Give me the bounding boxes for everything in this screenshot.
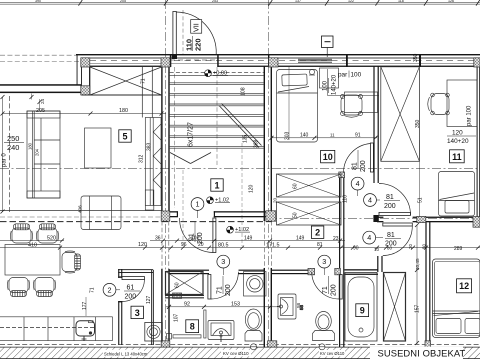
room box 3 — [131, 306, 143, 318]
svg-text:12: 12 — [459, 281, 469, 291]
room box 8 — [186, 320, 199, 333]
shaft room9 — [384, 273, 406, 342]
nightstand room10 — [320, 68, 339, 88]
door 71 room8 arc — [211, 272, 239, 299]
room12 west wall — [425, 222, 426, 345]
svg-text:1: 1 — [214, 180, 219, 190]
passage dashed west wall x168.8 — [168, 221, 170, 269]
door 81 room10: leaf — [344, 143, 374, 172]
block tub wall left — [335, 268, 341, 274]
circle 4 b — [364, 194, 377, 207]
west upper wall outer line — [0, 84, 82, 86]
desk room11 — [447, 80, 477, 127]
svg-text:60: 60 — [293, 183, 299, 189]
door VII label box — [191, 20, 202, 34]
top wall outer face — [76, 54, 480, 55]
svg-text:157: 157 — [415, 304, 421, 313]
svg-text:350: 350 — [415, 119, 421, 128]
block stair west bottom — [161, 341, 170, 350]
top wall glazing lines — [90, 57, 480, 60]
svg-text:127: 127 — [146, 295, 152, 304]
svg-text:140+20: 140+20 — [447, 138, 469, 145]
svg-text:71: 71 — [140, 78, 146, 84]
svg-text:204: 204 — [35, 148, 40, 156]
washing machine room8 top — [244, 272, 267, 297]
window jamb x268 — [268, 54, 269, 67]
svg-text:171.5: 171.5 — [266, 243, 280, 249]
wardrobe strip east wall living — [145, 118, 161, 206]
svg-text:81: 81 — [352, 162, 359, 170]
svg-text:61: 61 — [127, 285, 135, 292]
long wall x339.3-343.9 — [339, 177, 340, 347]
svg-text:110: 110 — [343, 195, 349, 203]
room10 south wall piece — [339, 172, 345, 177]
svg-text:289: 289 — [454, 246, 463, 252]
svg-text:205: 205 — [36, 108, 45, 114]
block room11 wall — [417, 216, 426, 222]
circle 1 — [191, 198, 204, 211]
overhang strip verticals — [141, 67, 143, 118]
coffee table — [85, 128, 112, 168]
text SUSEDNI OBJEKAT — [370, 347, 465, 359]
stair core east wall face x271 — [271, 58, 272, 221]
room box 2 — [311, 226, 323, 238]
svg-text:58: 58 — [296, 302, 301, 308]
hall-bath vertical piece — [377, 256, 378, 272]
svg-text:140: 140 — [300, 132, 309, 138]
text Schiedel note — [103, 350, 148, 357]
svg-text:4: 4 — [368, 196, 372, 205]
svg-text:153: 153 — [231, 301, 240, 307]
closet X room2 upper — [277, 174, 342, 197]
svg-text:410: 410 — [28, 242, 37, 248]
top dimension tiny numbers — [35, 0, 454, 3]
dim line y240.5 hall — [150, 239, 345, 243]
hall south wall y211.4 left segment — [162, 211, 178, 212]
door VII entrance leaf — [170, 10, 218, 60]
level marker +0.00 — [205, 70, 228, 77]
top wall inner face left of door — [81, 66, 170, 67]
level marker +1.02 hall — [207, 197, 230, 204]
svg-text:KV cev Ø110: KV cev Ø110 — [223, 351, 249, 356]
dim line y113 — [1, 112, 167, 116]
stair landing edge — [170, 75, 264, 77]
shaft schiedel room8 — [166, 272, 204, 295]
window glazing dense room10 — [298, 58, 332, 61]
terrace slab edge solid y210.6 — [0, 210, 162, 212]
room8 top wall left — [169, 270, 209, 271]
window jamb x346 — [346, 55, 348, 67]
dim line y247 left — [0, 246, 166, 250]
stair treads — [170, 82, 264, 84]
stair break line — [219, 106, 259, 148]
svg-text:24: 24 — [40, 98, 45, 104]
svg-text:137: 137 — [295, 0, 301, 3]
block hall wall west — [161, 211, 170, 221]
door jamb x177 — [177, 211, 178, 217]
door 61 arc — [122, 280, 145, 302]
roof overhang dashed y55 — [0, 54, 77, 56]
left vertical dim line — [1, 95, 5, 214]
svg-text:20: 20 — [273, 197, 278, 203]
section marker box — [322, 36, 334, 57]
dim extension line x86 — [85, 297, 87, 316]
svg-text:180: 180 — [119, 108, 128, 114]
toilet wc room — [316, 312, 332, 331]
window jamb x419 — [419, 55, 421, 67]
room box 9 — [356, 304, 369, 317]
svg-text:312: 312 — [139, 154, 145, 163]
chair bottom 2 — [34, 278, 56, 297]
svg-text:96: 96 — [181, 242, 187, 248]
svg-text:81: 81 — [386, 194, 394, 201]
passage dashed east wall x271.3 — [270, 221, 272, 268]
room3 top wall — [118, 268, 153, 271]
chair bottom 1 — [8, 278, 30, 297]
block shaft8 corner — [173, 293, 182, 298]
top wall inner face right of door — [218, 66, 480, 67]
tub top wall — [344, 269, 378, 270]
door 71 toilet: leaf — [312, 272, 343, 299]
svg-text:177: 177 — [82, 301, 88, 310]
passage dashed east wall x264.3 — [263, 221, 265, 268]
svg-text:20: 20 — [408, 244, 413, 249]
balcony outline dashed y217 — [0, 216, 162, 218]
svg-text:101: 101 — [191, 235, 200, 241]
door VII arc — [176, 12, 216, 54]
door 81 room12 hall: leaf — [383, 223, 413, 256]
svg-text:120: 120 — [138, 242, 147, 248]
room3 east wall thin — [150, 270, 153, 345]
stair core west wall face x168.8 upper — [168, 66, 169, 221]
svg-text:220: 220 — [194, 38, 203, 51]
svg-text:205: 205 — [120, 0, 126, 3]
circle leader lines — [116, 190, 383, 290]
bottom floor edge dashed y344 — [0, 343, 480, 345]
svg-text:2: 2 — [108, 285, 112, 294]
svg-text:200: 200 — [384, 203, 396, 210]
roof overhang dashed y62 — [0, 61, 90, 63]
svg-text:368: 368 — [254, 139, 260, 148]
chair top 2 — [37, 224, 59, 243]
pier hatch west wall lower — [81, 86, 90, 95]
desk room10 — [345, 92, 378, 113]
axis line horizontal right y218.4 — [268, 217, 480, 219]
kitchen sink — [76, 321, 95, 336]
svg-text:10: 10 — [374, 247, 379, 252]
stair direction chevron — [170, 153, 191, 164]
svg-text:36: 36 — [155, 235, 161, 241]
svg-text:VII: VII — [192, 23, 201, 32]
circle 2 — [103, 283, 116, 296]
stair projection dashed x174 — [174, 67, 176, 208]
washbasin toilet room — [278, 294, 296, 319]
svg-text:120: 120 — [249, 184, 255, 193]
chair room11 — [431, 94, 449, 115]
svg-text:par 100: par 100 — [467, 105, 473, 126]
dim line room10 y137.5 — [270, 136, 378, 140]
svg-text:71: 71 — [90, 287, 96, 293]
room10 east wall jamb bottom — [373, 215, 378, 222]
stair core west wall face x161.6 upper — [161, 58, 162, 221]
hall extension dashed x242 — [241, 143, 243, 246]
svg-text:par: par — [338, 72, 348, 79]
svg-text:240: 240 — [7, 143, 19, 152]
svg-text:23: 23 — [333, 236, 339, 242]
svg-text:3: 3 — [322, 257, 326, 266]
axis line vertical x165.6 — [164, 0, 166, 350]
svg-text:81: 81 — [317, 242, 323, 248]
room11 south wall — [377, 217, 383, 218]
circle 3 right — [318, 255, 331, 268]
floor drain symbol right — [319, 344, 325, 350]
svg-text:11: 11 — [452, 152, 462, 162]
vertical towel radiator room8 — [204, 310, 206, 338]
door 71 room8: leaf — [208, 272, 239, 299]
toilet room top wall — [272, 270, 309, 271]
chair top 1 — [11, 224, 33, 243]
svg-text:126: 126 — [448, 0, 454, 3]
svg-text:180: 180 — [28, 142, 33, 150]
room box 10 — [321, 150, 335, 162]
svg-text:100: 100 — [351, 72, 362, 79]
svg-text:50: 50 — [293, 212, 299, 218]
west upper wall inner line — [0, 92, 82, 94]
svg-text:122: 122 — [348, 0, 354, 3]
hatched wall blocks — [81, 58, 480, 350]
svg-text:303: 303 — [285, 131, 291, 140]
svg-text:3: 3 — [221, 257, 225, 266]
room box 5 — [119, 130, 131, 142]
svg-text:SUSEDNI OBJEKAT: SUSEDNI OBJEKAT — [378, 347, 466, 358]
block room10 door — [339, 172, 345, 178]
room8 top wall right — [239, 270, 265, 271]
tall cupboard X between 10 and 11 — [381, 67, 420, 162]
svg-text:140+20: 140+20 — [332, 74, 338, 95]
room3 west wall upper — [118, 269, 119, 278]
svg-text:20,45: 20,45 — [415, 258, 420, 270]
svg-text:20: 20 — [198, 242, 204, 248]
kitchen counter — [0, 316, 96, 318]
door 61 room3: leaf — [122, 277, 145, 302]
circle 4 c — [363, 231, 376, 244]
door VII sill jamb — [172, 54, 177, 59]
sofa — [27, 111, 60, 198]
glazing dashes top wall — [90, 60, 480, 62]
door jamb x214 — [214, 211, 215, 217]
axis line horizontal y168.6 — [0, 168, 480, 170]
door VII threshold — [170, 59, 218, 61]
door 91 arc — [180, 218, 213, 253]
svg-text:1: 1 — [196, 200, 200, 209]
svg-text:51: 51 — [418, 197, 424, 203]
washing machine room3 — [145, 323, 163, 342]
svg-text:118: 118 — [398, 0, 404, 3]
armchair — [81, 196, 121, 230]
dim extension line x419 — [418, 140, 420, 217]
svg-text:149: 149 — [296, 235, 305, 241]
hall extension dashed x183 — [182, 170, 184, 246]
room10 east wall x373.7-378.7 — [373, 66, 374, 183]
svg-text:107: 107 — [174, 313, 180, 322]
dim line bath y306 — [166, 305, 278, 309]
svg-text:100: 100 — [323, 80, 329, 91]
svg-text:90: 90 — [353, 245, 359, 251]
passage dashed west wall x162 — [161, 221, 163, 269]
svg-text:9: 9 — [360, 306, 365, 316]
svg-text:4: 4 — [367, 233, 371, 242]
svg-text:10: 10 — [323, 152, 333, 162]
chair right — [62, 251, 81, 273]
svg-text:383: 383 — [147, 142, 153, 151]
svg-text:135: 135 — [243, 134, 249, 143]
svg-text:5: 5 — [122, 131, 127, 141]
east edge wall — [477, 58, 478, 222]
pier hatch x474 top — [474, 58, 480, 67]
top dimension line — [0, 0, 480, 6]
block toilet top wall — [308, 268, 315, 274]
bed room10 — [277, 70, 318, 143]
svg-text:50: 50 — [422, 244, 427, 249]
svg-text:253: 253 — [212, 0, 218, 3]
door 81 room10 arc — [344, 144, 371, 173]
terrace dashed edge vertical x9.5 — [9, 96, 11, 213]
dim line y240 520 — [0, 239, 64, 243]
level marker +1.02 corridor — [227, 226, 250, 233]
svg-text:390: 390 — [35, 0, 41, 3]
svg-text:91: 91 — [355, 132, 361, 138]
pier hatch x81 top — [81, 58, 90, 67]
overhang strip border — [82, 94, 163, 96]
right vertical dim line — [415, 223, 419, 345]
toilet room8 — [245, 309, 261, 330]
circle 3 left — [217, 255, 230, 268]
svg-text:149: 149 — [244, 235, 253, 241]
svg-text:60: 60 — [175, 282, 181, 288]
svg-text:200: 200 — [360, 160, 367, 172]
axis line vertical x268.3 — [267, 0, 269, 350]
svg-text:8: 8 — [190, 322, 195, 332]
block hall wall east — [266, 211, 276, 221]
svg-text:406: 406 — [78, 205, 83, 213]
dim extension line x289 — [288, 67, 290, 140]
neighbour wall hatch — [0, 347, 480, 359]
door VII jamb right — [217, 54, 219, 67]
svg-text:Schiedel L 13 40x40cm: Schiedel L 13 40x40cm — [104, 351, 148, 356]
floor drain symbol left — [251, 344, 257, 350]
room box 12 — [457, 279, 472, 293]
svg-text:200: 200 — [125, 294, 137, 301]
svg-text:80: 80 — [387, 245, 392, 250]
dining table — [5, 245, 60, 276]
pier hatch x161 top — [161, 58, 170, 67]
door VII jamb projection dashed — [182, 10, 184, 54]
door 71 toilet arc — [312, 272, 340, 299]
svg-text:KV cev Ø110: KV cev Ø110 — [320, 351, 345, 356]
dim 24 wall — [30, 94, 42, 111]
room box 1 — [211, 179, 223, 191]
room box 11 — [450, 150, 465, 163]
bed room11 — [439, 172, 475, 217]
west window band line x89.3 — [88, 58, 91, 95]
washbasin room8 — [208, 321, 234, 340]
svg-text:200: 200 — [225, 284, 232, 296]
left dim texts 250/240 — [7, 134, 19, 152]
svg-text:250: 250 — [7, 134, 19, 143]
svg-text:350: 350 — [413, 53, 419, 62]
bed room12 — [433, 259, 480, 338]
wardrobe lower cabinet — [145, 190, 154, 210]
svg-text:200: 200 — [331, 284, 338, 296]
floor above outline heavy dashed y221.6 — [0, 221, 272, 223]
pier hatch x269 top — [269, 58, 278, 67]
svg-text:2: 2 — [315, 228, 320, 238]
svg-text:108: 108 — [241, 87, 247, 96]
door 81 room12 arc — [383, 226, 413, 256]
door VII jamb left — [170, 54, 172, 67]
svg-text:71: 71 — [322, 286, 329, 294]
chair room10 — [341, 95, 362, 115]
svg-text:6x17/27: 6x17/27 — [188, 122, 195, 147]
block stair east bottom — [268, 341, 277, 350]
closet X room2 lower — [277, 202, 342, 225]
door 81 hall east arc — [379, 184, 411, 216]
svg-text:81: 81 — [387, 232, 395, 239]
block room12 wall bottom — [425, 341, 431, 349]
svg-text:80.5: 80.5 — [218, 243, 229, 249]
towel radiator room8 — [173, 335, 201, 338]
circle 4 a — [351, 177, 364, 190]
door 81 hall east: leaf — [379, 184, 411, 216]
text KV cev right — [319, 350, 345, 356]
svg-text:4: 4 — [356, 179, 360, 188]
svg-text:71: 71 — [217, 286, 224, 294]
stair core east wall face x263.8 — [264, 66, 265, 221]
stair projection dashed x217 — [216, 67, 218, 165]
svg-text:11: 11 — [330, 132, 335, 137]
svg-text:120: 120 — [452, 130, 463, 137]
room3 west wall lower — [118, 301, 119, 345]
window annotation room11 — [447, 105, 476, 145]
overhang strip diagonals — [90, 67, 162, 95]
svg-text:520: 520 — [47, 236, 56, 242]
window annotation room10: par 100 — [309, 69, 379, 96]
text KV cev left — [221, 350, 251, 357]
block east wall lower — [473, 217, 480, 228]
dim line y247 middle — [166, 246, 480, 250]
hall south wall right segment — [214, 211, 271, 212]
svg-text:92: 92 — [184, 301, 190, 307]
west window band line x81.3 — [80, 58, 83, 95]
svg-text:3: 3 — [135, 308, 140, 318]
door 91 hall to living: leaf — [180, 218, 216, 253]
west corner face x77 — [76, 54, 79, 85]
bathtub room9 — [345, 273, 377, 342]
